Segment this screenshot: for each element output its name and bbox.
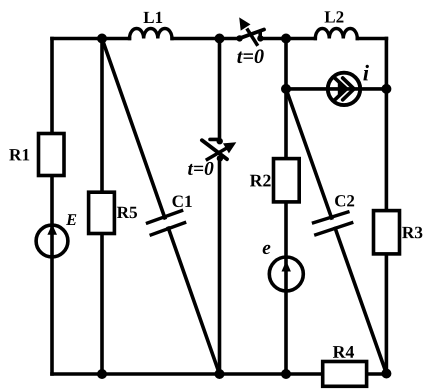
capacitor C2 xyxy=(314,212,352,235)
label R5 (bold) xyxy=(117,207,137,218)
switch S1 (top, t=0) xyxy=(236,17,264,45)
wire R2 to bottom node H (through source e) xyxy=(284,202,288,374)
wire node D to R2 xyxy=(284,89,288,159)
wire branch R5 lower (R5 to bottom) xyxy=(100,234,104,375)
label C2 (bold) xyxy=(335,195,354,206)
wire bottom rail (node G to node H) xyxy=(220,372,287,376)
wire top-left horizontal (corner to node A) xyxy=(52,37,130,41)
wire diagonal C1 lower segment xyxy=(168,228,219,374)
label t=0 (bold-italic) xyxy=(237,49,263,63)
node C (top, x=286) xyxy=(281,34,291,44)
label R3 (bold) xyxy=(402,227,422,239)
wire branch switch S2 upper (node B down to S2) xyxy=(218,39,222,140)
resistor R5 xyxy=(89,192,115,233)
node E (x=386.4, y=88.9) xyxy=(381,84,391,94)
voltage source E xyxy=(36,225,68,257)
wire right side upper (corner to node E) xyxy=(385,39,389,89)
wire left side lower (R1 to bottom corner, through source E) xyxy=(50,176,54,375)
label R4 (bold) xyxy=(333,346,354,358)
wire left side upper (corner to R1) xyxy=(50,39,54,134)
wire diagonal C1 upper segment xyxy=(102,39,165,218)
node D (x=286, y=88.9) xyxy=(281,84,291,94)
node H (bottom, x=286) xyxy=(281,369,291,379)
wire bottom rail left (corner to node F) xyxy=(52,372,102,376)
label L1 (bold) xyxy=(144,12,163,23)
capacitor C1 xyxy=(148,211,185,235)
node F (bottom, x=102) xyxy=(97,369,107,379)
node B (top, x=219.5) xyxy=(215,34,225,44)
wire diagonal C2 lower segment xyxy=(335,228,386,373)
wire node D to node E (through source i) xyxy=(286,87,386,91)
wire branch node C down to node D xyxy=(284,39,288,89)
wire L2 to top-right corner xyxy=(357,37,386,41)
label C1 (bold) xyxy=(172,196,191,208)
node I (bottom-right, x=386.4) xyxy=(381,369,391,379)
label t=0 (bold-italic) xyxy=(188,162,213,175)
switch S2 (middle, t=0) xyxy=(202,138,236,162)
label R1 (bold) xyxy=(9,149,29,160)
wire between L1 and switch S1 xyxy=(172,37,237,41)
wire node C to L2 xyxy=(286,37,315,41)
wire R4 to bottom-right node xyxy=(367,372,387,376)
wire bottom rail (node H to R4) xyxy=(286,372,322,376)
node A (top, x=102) xyxy=(97,34,107,44)
wire diagonal C2 upper segment xyxy=(286,89,332,218)
label R2 (bold) xyxy=(250,175,271,187)
resistor R2 xyxy=(274,159,300,202)
current source i xyxy=(328,73,360,105)
wire branch R5 upper (node A down to R5) xyxy=(100,39,104,193)
label L2 (bold) xyxy=(325,11,344,22)
resistor R3 xyxy=(374,211,400,254)
inductor L1 xyxy=(130,28,172,38)
label E (bold-italic) xyxy=(66,214,76,225)
wire branch switch S2 lower (S2 to bottom) xyxy=(218,159,222,374)
wire right side (node E to R3) xyxy=(385,89,389,211)
arrow of source E xyxy=(47,224,57,235)
node G (bottom, x=219.5) xyxy=(215,369,225,379)
wire between S1 and node C xyxy=(262,37,286,41)
arrow of source e xyxy=(282,261,291,272)
chevrons of current source i xyxy=(334,77,355,101)
resistor R4 xyxy=(323,362,367,387)
resistor R1 xyxy=(39,134,65,176)
inductor L2 xyxy=(315,29,357,39)
label e (bold-italic) xyxy=(263,245,271,254)
voltage source e xyxy=(269,257,303,291)
wire right side lower (R3 to bottom corner) xyxy=(385,254,389,374)
label i (bold-italic) xyxy=(363,65,369,81)
wire bottom rail (node F to node G) xyxy=(102,372,220,376)
